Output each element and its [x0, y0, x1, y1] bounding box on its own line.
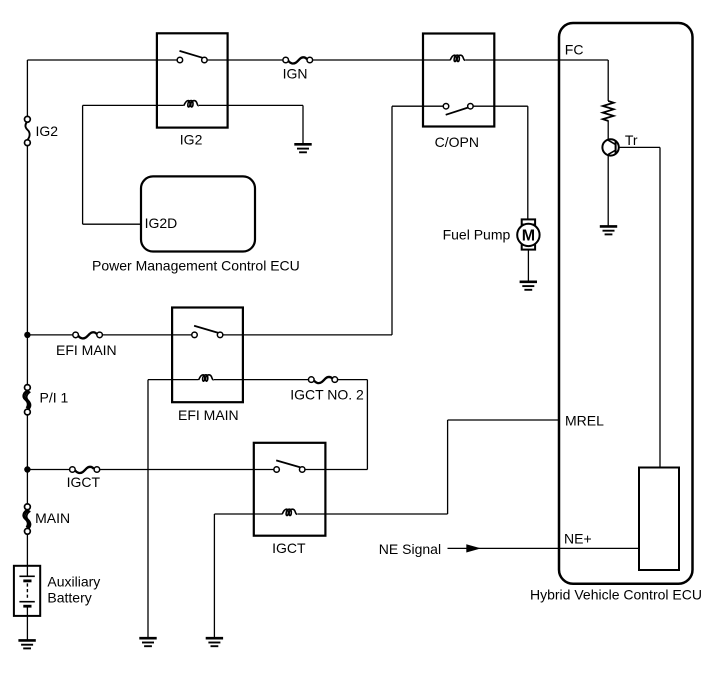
coil C/OPN [450, 55, 465, 61]
ground for IG2 coil [294, 144, 311, 152]
Hybrid Vehicle Control ECU box [559, 23, 693, 584]
svg-text:IGCT NO. 2: IGCT NO. 2 [290, 387, 364, 403]
wire C/OPN switch left to riser x392 [392, 105, 443, 107]
svg-text:IG2: IG2 [36, 123, 59, 139]
wire from resistor to transistor collector [607, 120, 609, 140]
coil IGCT [282, 509, 297, 515]
wire left rail from IG2 link to P/I 1 link [26, 146, 28, 385]
ground for fuel pump [520, 282, 537, 290]
fuse IGCT wave [75, 467, 94, 473]
relay IG2 box [157, 33, 228, 127]
wire EFI MAIN fuse to relay switch [102, 334, 191, 336]
svg-text:MREL: MREL [565, 413, 604, 429]
relay C/OPN box [423, 34, 494, 127]
battery Auxiliary Battery box [14, 566, 40, 616]
wire left riser down to IG2D row [82, 105, 84, 224]
fuse EFI MAIN circles [73, 332, 79, 338]
ground for transistor emitter [600, 226, 617, 234]
NE Signal arrowhead [466, 544, 481, 552]
junction node at EFI MAIN row [24, 332, 30, 338]
wire C/OPN switch right to fuel pump drop [473, 105, 528, 107]
relay EFI MAIN box [172, 308, 243, 403]
wire battery negative to ground [26, 606, 28, 639]
wire IG2 coil to left riser [83, 104, 184, 106]
wire ground riser x214.4 [213, 514, 215, 638]
svg-text:Power Management Control ECU: Power Management Control ECU [92, 258, 300, 274]
switch IGCT blade [276, 460, 300, 467]
wire IG2 coil right to ground drop [199, 104, 303, 106]
svg-text:C/OPN: C/OPN [435, 134, 479, 150]
wire FC net vertical down to resistor [607, 60, 609, 101]
wire transistor emitter to ground [607, 154, 609, 225]
coil EFI MAIN [199, 375, 214, 381]
wire fuel pump drop down to motor [527, 106, 529, 219]
relay IGCT box [254, 443, 326, 536]
coil IG2 [184, 101, 199, 107]
wire transistor base-right to inner block riser [619, 146, 660, 148]
svg-text:IGN: IGN [283, 65, 308, 81]
ground for battery [18, 640, 35, 648]
wire riser x392 down to EFI MAIN switch row [391, 106, 393, 335]
fusible link MAIN wave [23, 510, 30, 529]
svg-text:IG2D: IG2D [145, 215, 178, 231]
svg-text:MAIN: MAIN [35, 510, 70, 526]
wire ground drop of IG2 coil [302, 105, 304, 143]
svg-text:Tr: Tr [625, 132, 638, 148]
fusible link P/I 1 circles [25, 385, 31, 391]
svg-text:FC: FC [565, 42, 584, 58]
junction node at IGCT row [24, 466, 30, 472]
fuse IGCT NO.2 circles [309, 377, 315, 383]
wire left rail from P/I 1 link to MAIN link [26, 415, 28, 504]
fusible link IG2 circles [25, 116, 31, 122]
wire top rail from IG2 switch to IGN fuse [207, 59, 283, 61]
wire NE signal line into ECU inner block [448, 547, 640, 549]
svg-text:EFI MAIN: EFI MAIN [178, 407, 239, 423]
motor M fuel pump [517, 219, 539, 249]
wire IGCT coil left to ground riser x214.4 [214, 513, 282, 515]
transistor Tr [602, 139, 618, 155]
wire riser x660 down to inner block [659, 147, 661, 467]
Power Management Control ECU box [141, 176, 255, 251]
svg-text:M: M [522, 228, 535, 245]
fusible link IG2 wave [25, 122, 29, 140]
wire ground riser x148 [147, 380, 149, 638]
wire corner down to IGCT switch row [366, 380, 368, 470]
switch EFI MAIN terminal circles [192, 332, 198, 338]
wire IGCT switch right terminal to corner [305, 469, 367, 471]
wire EFI MAIN switch right to riser x392 [223, 334, 392, 336]
switch C/OPN blade [446, 108, 469, 115]
wire IGCT NO.2 fuse to corner x367.4 [338, 379, 368, 381]
wire EFI MAIN row from left rail junction to fuse [27, 334, 73, 336]
wire left rail from MAIN link into battery top cell [26, 534, 28, 576]
svg-text:Fuel Pump: Fuel Pump [443, 227, 511, 243]
switch IG2 blade [180, 51, 203, 58]
wire motor to ground [527, 250, 529, 281]
svg-text:P/I 1: P/I 1 [40, 389, 69, 405]
wire IGCT coil right to MREL corner [297, 513, 447, 515]
switch IGCT terminal circles [274, 467, 280, 473]
svg-text:EFI MAIN: EFI MAIN [56, 342, 117, 358]
svg-text:IG2: IG2 [180, 132, 203, 148]
svg-text:IGCT: IGCT [67, 474, 101, 490]
wire EFI MAIN coil right to IGCT NO.2 fuse [214, 379, 309, 381]
inner block of hybrid ECU [639, 468, 679, 571]
fuse IGN circles [283, 57, 289, 63]
wire top rail from IGN fuse to C/OPN coil [313, 59, 450, 61]
fuse EFI MAIN wave [78, 332, 97, 338]
wire IGCT fuse to relay switch [100, 469, 274, 471]
wire top rail from C/OPN coil to FC corner [465, 59, 608, 61]
fuse IGCT NO.2 wave [314, 377, 333, 383]
svg-text:NE+: NE+ [564, 531, 592, 547]
ground for IGCT coil [206, 638, 223, 646]
ground for EFI MAIN coil [139, 638, 156, 646]
svg-text:IGCT: IGCT [272, 540, 306, 556]
fusible link MAIN circles [25, 504, 31, 510]
svg-text:Hybrid Vehicle Control ECU: Hybrid Vehicle Control ECU [530, 587, 702, 603]
fuse IGCT circles [70, 467, 76, 473]
wire into IG2D terminal [83, 223, 141, 225]
svg-text:Battery: Battery [47, 590, 91, 606]
svg-text:NE Signal: NE Signal [379, 541, 441, 557]
wire EFI MAIN coil left to ground riser [148, 379, 199, 381]
battery cell plates [19, 576, 34, 606]
fuse IGN wave [288, 57, 307, 63]
svg-text:Auxiliary: Auxiliary [47, 573, 100, 589]
wire IGCT row from left rail junction to IGCT fuse [27, 469, 69, 471]
resistor R (FC pull) [603, 101, 614, 121]
wire top rail left segment from left rail corner to IG2 relay switch [27, 59, 177, 61]
switch IG2 terminal circles [177, 57, 183, 63]
wire MREL riser [447, 420, 449, 514]
switch EFI MAIN blade [194, 326, 218, 333]
wire MREL into ECU [448, 419, 559, 421]
switch C/OPN terminal circles [443, 103, 449, 109]
fusible link P/I 1 wave [23, 390, 30, 409]
wire left rail from top corner to IG2 fusible link [26, 60, 28, 117]
